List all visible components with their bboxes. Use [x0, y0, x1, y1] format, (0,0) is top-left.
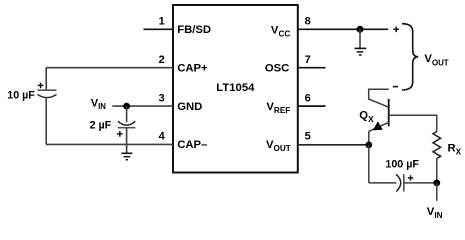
svg-text:RX: RX [448, 142, 462, 156]
svg-text:1: 1 [159, 16, 165, 28]
svg-text:VCC: VCC [271, 24, 290, 38]
svg-text:VIN: VIN [91, 98, 106, 112]
svg-text:GND: GND [177, 101, 202, 113]
svg-text:3: 3 [159, 92, 165, 104]
svg-text:7: 7 [305, 54, 311, 66]
svg-text:10 µF: 10 µF [7, 90, 35, 102]
svg-text:5: 5 [305, 131, 311, 143]
svg-text:VOUT: VOUT [266, 139, 291, 153]
svg-text:2: 2 [159, 54, 165, 66]
svg-text:100 µF: 100 µF [385, 159, 419, 171]
svg-text:CAP+: CAP+ [177, 63, 208, 75]
svg-text:VREF: VREF [266, 101, 290, 115]
svg-text:CAP–: CAP– [177, 139, 207, 151]
svg-text:VOUT: VOUT [424, 53, 448, 67]
svg-text:VIN: VIN [427, 206, 443, 220]
svg-text:4: 4 [159, 131, 166, 143]
svg-text:QX: QX [359, 110, 374, 124]
svg-text:FB/SD: FB/SD [177, 24, 211, 36]
svg-text:8: 8 [305, 16, 311, 28]
svg-text:2 µF: 2 µF [90, 119, 112, 131]
svg-text:OSC: OSC [265, 63, 289, 75]
svg-text:6: 6 [305, 92, 311, 104]
svg-text:LT1054: LT1054 [216, 82, 255, 94]
